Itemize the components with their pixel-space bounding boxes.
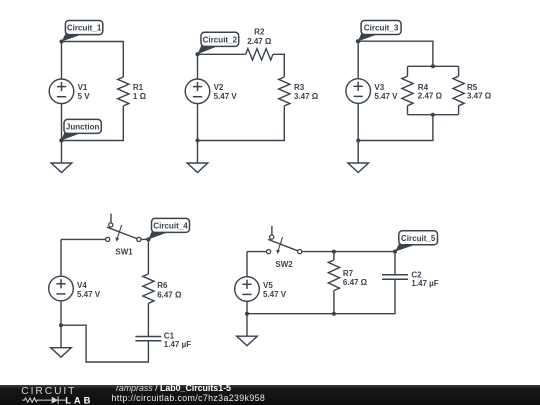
svg-text:R1: R1: [133, 83, 144, 92]
svg-text:SW1: SW1: [115, 248, 133, 257]
svg-text:Circuit_3: Circuit_3: [364, 24, 399, 33]
svg-text:SW2: SW2: [275, 260, 293, 269]
svg-text:1.47 µF: 1.47 µF: [164, 340, 191, 349]
svg-text:1.47 µF: 1.47 µF: [411, 279, 438, 288]
svg-text:R5: R5: [467, 83, 478, 92]
svg-text:2.47 Ω: 2.47 Ω: [418, 92, 443, 101]
svg-text:Circuit_5: Circuit_5: [401, 234, 436, 243]
svg-text:6.47 Ω: 6.47 Ω: [343, 278, 368, 287]
svg-text:R4: R4: [418, 83, 429, 92]
svg-text:3.47 Ω: 3.47 Ω: [294, 92, 319, 101]
svg-text:5.47 V: 5.47 V: [263, 290, 287, 299]
svg-text:R6: R6: [157, 281, 168, 290]
svg-text:5.47 V: 5.47 V: [374, 92, 398, 101]
svg-text:5.47 V: 5.47 V: [77, 290, 101, 299]
svg-text:1 Ω: 1 Ω: [133, 92, 147, 101]
svg-text:5.47 V: 5.47 V: [214, 92, 238, 101]
svg-text:Circuit_1: Circuit_1: [67, 24, 102, 33]
svg-text:R7: R7: [343, 269, 354, 278]
svg-text:R3: R3: [294, 83, 305, 92]
svg-text:Circuit_2: Circuit_2: [203, 36, 238, 45]
svg-text:C2: C2: [411, 270, 422, 279]
svg-text:Junction: Junction: [66, 123, 100, 132]
svg-text:5 V: 5 V: [78, 92, 91, 101]
svg-text:V3: V3: [374, 83, 384, 92]
svg-text:V2: V2: [214, 83, 224, 92]
svg-text:V4: V4: [77, 281, 87, 290]
svg-text:C1: C1: [164, 331, 175, 340]
svg-text:R2: R2: [254, 28, 265, 37]
svg-text:2.47 Ω: 2.47 Ω: [247, 37, 272, 46]
svg-text:LAB: LAB: [65, 394, 93, 405]
svg-text:Circuit_4: Circuit_4: [153, 222, 188, 231]
svg-text:V1: V1: [78, 83, 88, 92]
svg-text:3.47 Ω: 3.47 Ω: [467, 92, 492, 101]
svg-text:6.47 Ω: 6.47 Ω: [157, 291, 182, 300]
svg-text:V5: V5: [263, 281, 273, 290]
